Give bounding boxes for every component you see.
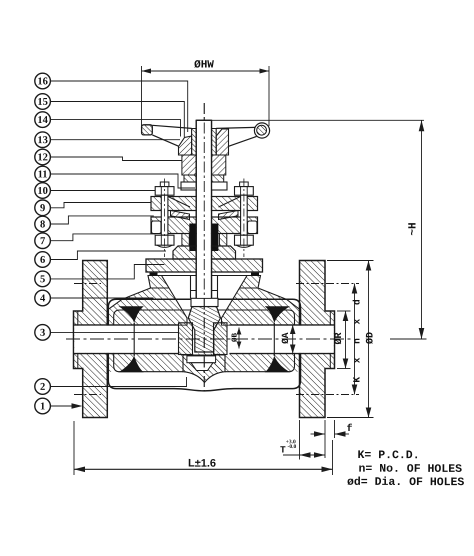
handwheel arm left: [152, 125, 191, 146]
gland bolt left: [155, 179, 174, 258]
stuffing box wall left: [182, 234, 189, 247]
stuffing box ear right: [248, 221, 258, 234]
balloon 6: [35, 252, 51, 268]
bore outline redraw top: [74, 324, 335, 326]
svg-text:15: 15: [37, 97, 48, 108]
dimension f: [311, 420, 353, 458]
balloon 7: [35, 233, 51, 249]
handwheel hub bell left: [179, 136, 192, 155]
bushing collar left: [181, 182, 196, 190]
dimension OR: [334, 311, 351, 369]
body flange bottom face lines: [151, 287, 259, 289]
body outer contour: [108, 299, 300, 391]
leader 15: [50, 102, 185, 138]
svg-text:f: f: [346, 423, 352, 435]
dimension OHW: [142, 59, 270, 126]
balloon 9: [35, 200, 51, 216]
bushing step left: [184, 175, 196, 182]
body lower wall band: [107, 354, 300, 372]
leader 1: [50, 405, 78, 407]
left flange: [74, 261, 108, 418]
svg-text:3: 3: [40, 328, 45, 339]
leader 2: [50, 377, 187, 387]
bonnet upper block: [173, 246, 236, 259]
body bottom boss: [183, 355, 225, 383]
balloon 5: [35, 271, 51, 287]
bore outline top: [74, 324, 335, 326]
body inner contour: [114, 310, 295, 372]
svg-text:ØHW: ØHW: [194, 59, 214, 71]
body wall and hub left upper: [107, 276, 187, 326]
svg-text:ØB: ØB: [231, 333, 240, 343]
leader 5: [50, 265, 165, 279]
bonnet spigot: [191, 276, 218, 299]
balloon 1: [35, 398, 51, 414]
packing right: [212, 224, 219, 252]
svg-text:-0.0: -0.0: [287, 444, 296, 450]
svg-text:5: 5: [40, 274, 45, 285]
leader 14: [50, 120, 181, 137]
balloon 8: [35, 216, 51, 232]
dimension OD: [327, 261, 377, 418]
svg-text:11: 11: [38, 169, 48, 180]
port edge line left redraw: [133, 323, 135, 356]
leader 11: [50, 174, 195, 188]
svg-text:L±1.6: L±1.6: [188, 458, 216, 470]
svg-text:1: 1: [40, 401, 45, 412]
svg-text:~H: ~H: [408, 222, 420, 235]
svg-text:14: 14: [37, 115, 48, 126]
leader 13: [50, 139, 180, 141]
svg-text:T: T: [280, 445, 286, 456]
stuffing box wall right: [219, 234, 226, 247]
fillet blob upper left: [119, 306, 144, 323]
svg-text:ØR: ØR: [334, 332, 345, 344]
svg-text:K= P.C.D.: K= P.C.D.: [357, 449, 419, 462]
svg-text:6: 6: [40, 255, 45, 266]
balloon 15: [35, 94, 51, 110]
stem: [196, 120, 211, 298]
boss inner step: [187, 356, 216, 371]
svg-text:n= No. OF HOLES: n= No. OF HOLES: [358, 463, 462, 476]
handwheel hub bell right: [216, 129, 228, 155]
bonnet gasket right: [251, 273, 259, 276]
handwheel rim left: [142, 125, 153, 135]
right flange: [300, 261, 335, 418]
svg-text:2: 2: [40, 382, 45, 393]
balloon 11: [35, 166, 51, 182]
balloon 16: [35, 73, 51, 89]
svg-text:9: 9: [40, 203, 45, 214]
gland flange dish lines: [168, 197, 241, 208]
body flange joint line: [148, 275, 261, 277]
balloon 14: [35, 112, 51, 128]
svg-text:7: 7: [40, 236, 45, 247]
svg-text:12: 12: [37, 152, 48, 163]
port edge line left: [133, 323, 135, 356]
disc: [188, 307, 220, 353]
bolt circle centerline right flange: [296, 283, 359, 285]
balloon 13: [35, 132, 51, 148]
gland bolt right: [235, 179, 254, 258]
bushing collar right: [212, 182, 228, 190]
fillet blob lower left: [119, 356, 144, 373]
bonnet gasket left: [150, 273, 158, 276]
packing left: [189, 224, 196, 252]
leader 10: [50, 190, 155, 192]
handwheel hub sleeve right: [212, 129, 217, 156]
bolt circle centerline left flange: [74, 283, 101, 285]
leader 3: [50, 331, 179, 333]
leader 6: [50, 251, 166, 260]
handwheel rim right: [254, 123, 269, 138]
balloon 10: [35, 183, 51, 199]
svg-text:13: 13: [37, 135, 48, 146]
leader 8: [50, 216, 154, 224]
fillet blob upper right: [265, 306, 290, 323]
leader 12: [50, 157, 182, 161]
svg-text:10: 10: [37, 186, 48, 197]
port edge line right redraw: [273, 323, 275, 356]
bonnet flange: [146, 259, 263, 272]
balloon 3: [35, 325, 51, 341]
leader 4: [50, 297, 154, 299]
svg-text:K x n x d: K x n x d: [352, 295, 363, 382]
seat ring right: [214, 323, 228, 355]
port edge line right: [273, 323, 275, 356]
bore channel white: [74, 326, 333, 353]
handwheel hub sleeve left: [192, 129, 197, 156]
svg-text:16: 16: [37, 76, 48, 87]
dimension L±1.6: [74, 421, 333, 475]
seat ring left: [179, 323, 193, 355]
svg-text:ØA: ØA: [280, 332, 291, 344]
leader 1 arrowhead: [72, 403, 83, 409]
legend text: [347, 449, 464, 489]
bore outline bottom: [74, 353, 335, 355]
dimension T: [280, 420, 325, 460]
dimension OB: [231, 328, 242, 349]
pipe centerline: [66, 338, 352, 340]
stem centerline: [203, 103, 205, 391]
bushing step right: [212, 175, 224, 182]
stuffing box ear left: [152, 221, 162, 234]
balloon 4: [35, 290, 51, 306]
yoke bushing right: [212, 155, 226, 175]
dimension ~H: [212, 120, 427, 339]
leader 16: [50, 81, 188, 132]
stem white redraw: [196, 103, 211, 391]
svg-text:ØD: ØD: [366, 332, 377, 344]
gland follower wedge left: [171, 211, 190, 220]
balloon 2: [35, 379, 51, 395]
yoke bushing left: [182, 155, 196, 175]
body wall and hub right upper: [222, 276, 301, 326]
leader 7: [50, 234, 156, 241]
svg-text:8: 8: [40, 219, 45, 230]
leader 9: [50, 203, 151, 208]
fillet blob lower right: [265, 356, 290, 373]
stem backseat collar: [191, 298, 218, 306]
handwheel arm right: [216, 127, 256, 146]
svg-text:ød= Dia. OF HOLES: ød= Dia. OF HOLES: [347, 476, 464, 489]
balloon 12: [35, 149, 51, 165]
stuffing box flange: [151, 217, 258, 234]
dimension OA: [280, 325, 299, 354]
gland flange: [151, 197, 258, 211]
bore outline redraw bottom: [74, 353, 335, 355]
dimension K x n x d: [352, 284, 363, 395]
gland follower wedge right: [219, 211, 239, 220]
svg-text:4: 4: [40, 293, 46, 304]
